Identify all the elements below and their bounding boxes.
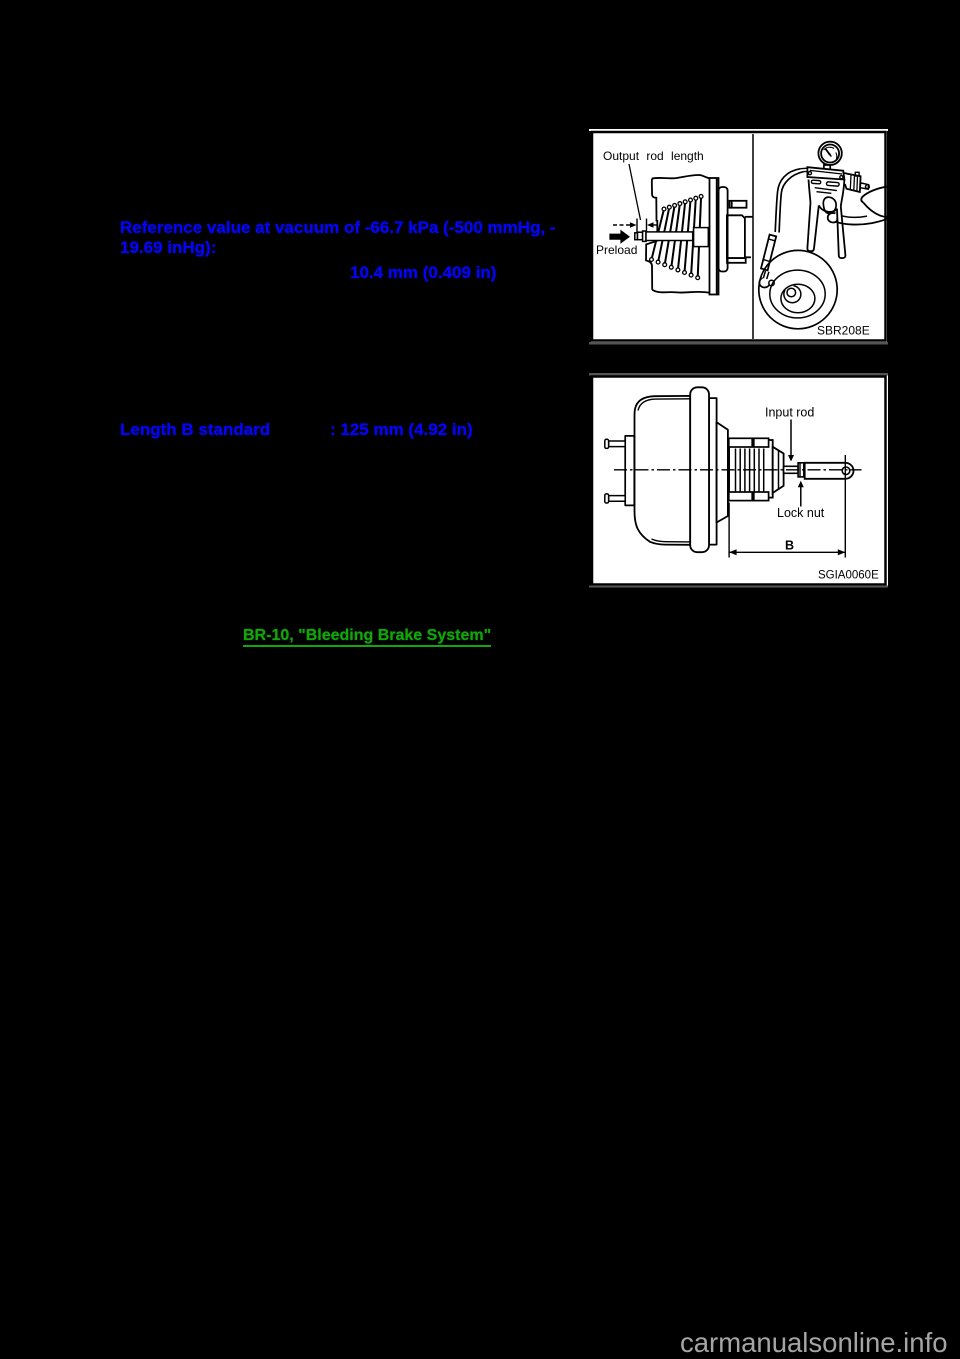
svg-text:B: B [785,539,794,553]
svg-text:SGIA0060E: SGIA0060E [818,570,879,582]
svg-text:SBR208E: SBR208E [817,324,870,338]
svg-text:Lock nut: Lock nut [777,506,825,520]
svg-text:Input rod: Input rod [765,406,814,420]
svg-text:Preload: Preload [596,243,637,257]
svg-text:Output rod length: Output rod length [603,149,704,163]
